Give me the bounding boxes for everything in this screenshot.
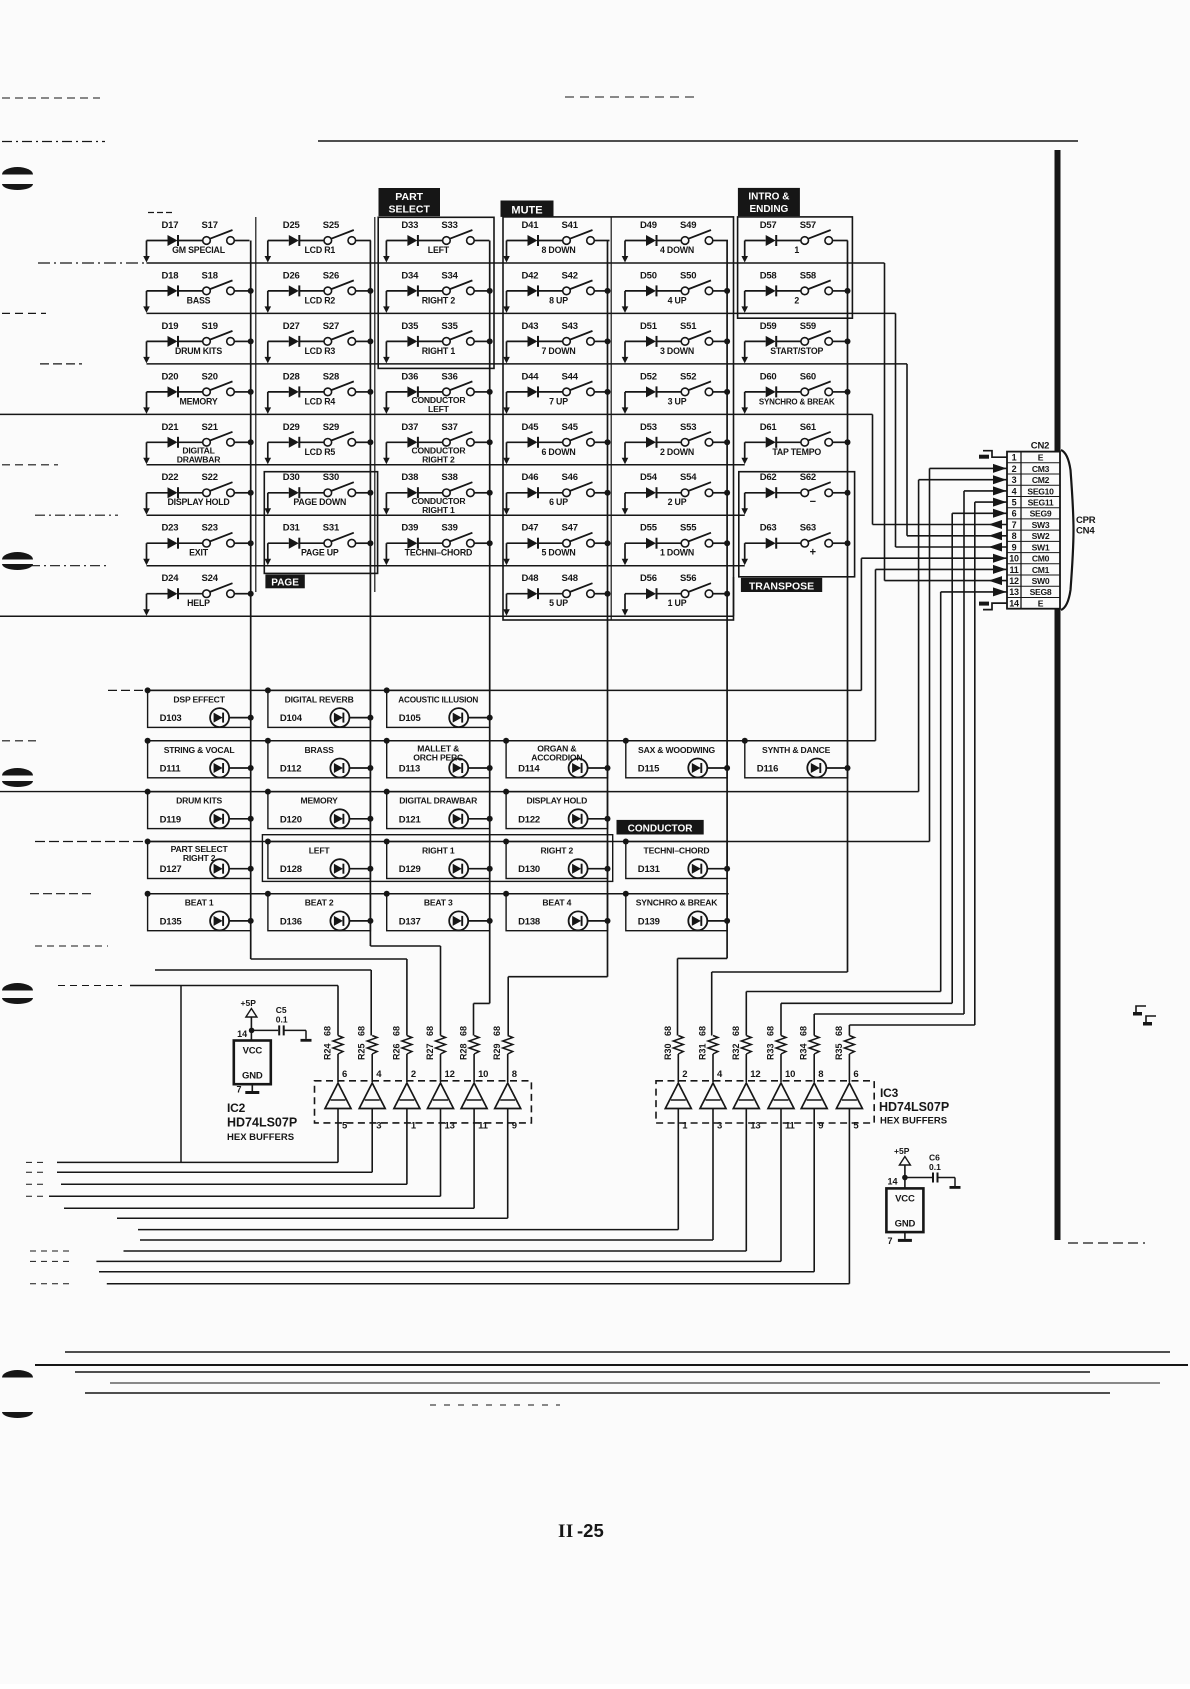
svg-text:R32: R32	[731, 1043, 741, 1060]
svg-text:14: 14	[1009, 599, 1019, 609]
svg-text:4 UP: 4 UP	[668, 295, 687, 305]
svg-text:S57: S57	[800, 220, 816, 231]
svg-text:C5: C5	[276, 1005, 287, 1015]
svg-text:INTRO &: INTRO &	[748, 192, 789, 203]
svg-text:D45: D45	[522, 422, 540, 433]
svg-text:S41: S41	[562, 220, 579, 231]
svg-text:2 UP: 2 UP	[668, 497, 687, 507]
svg-text:D31: D31	[283, 523, 301, 534]
svg-text:68: 68	[425, 1026, 435, 1036]
svg-text:D105: D105	[399, 713, 422, 724]
svg-text:S46: S46	[562, 472, 578, 483]
svg-text:DISPLAY HOLD: DISPLAY HOLD	[526, 796, 587, 806]
svg-text:RIGHT 1: RIGHT 1	[422, 846, 455, 856]
svg-text:3 DOWN: 3 DOWN	[660, 346, 694, 356]
svg-text:13: 13	[1009, 587, 1019, 597]
svg-text:ENDING: ENDING	[749, 204, 788, 215]
svg-text:SEG11: SEG11	[1028, 498, 1054, 508]
svg-text:CPR: CPR	[1076, 515, 1096, 526]
svg-text:PART: PART	[395, 191, 423, 203]
svg-text:RIGHT 2: RIGHT 2	[183, 853, 216, 863]
svg-text:D120: D120	[280, 814, 302, 825]
svg-text:S63: S63	[800, 523, 816, 534]
svg-text:S26: S26	[323, 270, 339, 281]
svg-text:S22: S22	[202, 472, 218, 483]
svg-text:D112: D112	[280, 764, 301, 775]
svg-text:S49: S49	[680, 220, 696, 231]
svg-text:ACOUSTIC ILLUSION: ACOUSTIC ILLUSION	[398, 695, 478, 704]
svg-text:R30: R30	[663, 1043, 673, 1060]
svg-text:68: 68	[459, 1026, 469, 1036]
svg-text:D131: D131	[638, 864, 661, 875]
svg-text:S37: S37	[441, 422, 457, 433]
svg-text:C6: C6	[929, 1153, 940, 1163]
svg-text:SEG9: SEG9	[1030, 509, 1052, 519]
svg-text:D42: D42	[522, 270, 539, 281]
svg-text:SELECT: SELECT	[388, 204, 430, 216]
svg-text:SW0: SW0	[1032, 576, 1050, 586]
svg-text:10: 10	[1009, 554, 1019, 564]
svg-text:3 UP: 3 UP	[668, 396, 687, 406]
svg-text:START/STOP: START/STOP	[770, 346, 823, 356]
svg-text:D20: D20	[162, 371, 179, 382]
svg-text:CONDUCTOR: CONDUCTOR	[628, 824, 694, 835]
svg-text:HEX BUFFERS: HEX BUFFERS	[227, 1132, 294, 1143]
svg-text:BEAT 2: BEAT 2	[305, 898, 334, 908]
svg-text:S36: S36	[441, 371, 457, 382]
svg-text:SYNCHRO & BREAK: SYNCHRO & BREAK	[759, 397, 835, 406]
svg-text:D60: D60	[760, 371, 777, 382]
svg-text:DSP EFFECT: DSP EFFECT	[173, 694, 225, 704]
svg-text:D58: D58	[760, 270, 777, 281]
svg-text:EXIT: EXIT	[189, 548, 209, 558]
svg-text:S23: S23	[202, 523, 218, 534]
svg-text:1: 1	[682, 1121, 688, 1132]
svg-text:R29: R29	[492, 1043, 502, 1060]
svg-text:D50: D50	[640, 270, 657, 281]
svg-text:S43: S43	[562, 321, 578, 332]
svg-text:DRAWBAR: DRAWBAR	[177, 454, 221, 464]
svg-text:CM0: CM0	[1032, 554, 1050, 564]
svg-text:RIGHT 2: RIGHT 2	[422, 454, 455, 464]
svg-text:11: 11	[1010, 565, 1019, 575]
svg-text:1 DOWN: 1 DOWN	[660, 548, 694, 558]
svg-text:D127: D127	[160, 864, 182, 875]
svg-text:12: 12	[1009, 576, 1019, 586]
svg-text:1: 1	[794, 245, 799, 255]
svg-text:8 DOWN: 8 DOWN	[542, 245, 576, 255]
svg-text:D35: D35	[401, 321, 419, 332]
svg-text:MEMORY: MEMORY	[301, 796, 339, 806]
svg-text:ORCH PERC: ORCH PERC	[413, 752, 463, 762]
svg-text:D130: D130	[518, 864, 540, 875]
svg-text:R35: R35	[834, 1043, 844, 1060]
svg-text:LEFT: LEFT	[428, 245, 450, 255]
svg-text:S42: S42	[562, 270, 578, 281]
svg-text:D44: D44	[522, 371, 540, 382]
svg-text:PAGE: PAGE	[271, 578, 299, 589]
svg-text:68: 68	[323, 1026, 333, 1036]
svg-text:11: 11	[785, 1121, 796, 1132]
svg-text:R28: R28	[459, 1043, 469, 1060]
svg-text:TECHNI–CHORD: TECHNI–CHORD	[405, 548, 473, 558]
svg-text:68: 68	[766, 1026, 776, 1036]
svg-text:D28: D28	[283, 371, 300, 382]
svg-text:SYNCHRO & BREAK: SYNCHRO & BREAK	[636, 898, 719, 908]
svg-text:IC3: IC3	[880, 1086, 899, 1100]
svg-text:D23: D23	[162, 523, 179, 534]
svg-text:68: 68	[663, 1026, 673, 1036]
svg-text:VCC: VCC	[243, 1046, 263, 1057]
svg-text:RIGHT 1: RIGHT 1	[422, 505, 455, 515]
svg-text:13: 13	[750, 1121, 760, 1132]
svg-text:S28: S28	[323, 371, 339, 382]
svg-text:D18: D18	[162, 270, 179, 281]
svg-text:5 DOWN: 5 DOWN	[542, 548, 576, 558]
svg-text:HD74LS07P: HD74LS07P	[879, 1100, 949, 1114]
svg-text:BEAT 3: BEAT 3	[424, 898, 453, 908]
svg-text:S60: S60	[800, 371, 816, 382]
svg-text:D37: D37	[401, 422, 418, 433]
svg-text:D36: D36	[401, 371, 418, 382]
svg-text:D103: D103	[160, 713, 182, 724]
svg-text:8: 8	[1012, 531, 1017, 541]
svg-text:D62: D62	[760, 472, 777, 483]
svg-text:D56: D56	[640, 573, 657, 584]
svg-text:D38: D38	[401, 472, 418, 483]
svg-text:8: 8	[818, 1069, 823, 1080]
svg-text:HELP: HELP	[187, 598, 210, 608]
svg-text:IC2: IC2	[227, 1101, 246, 1115]
svg-text:R33: R33	[766, 1043, 776, 1060]
svg-text:PAGE UP: PAGE UP	[301, 548, 339, 558]
svg-text:D119: D119	[160, 814, 181, 825]
svg-text:MUTE: MUTE	[511, 205, 542, 217]
svg-text:0.1: 0.1	[276, 1015, 288, 1025]
svg-text:R26: R26	[391, 1043, 401, 1060]
svg-text:7: 7	[1012, 520, 1017, 530]
svg-text:S48: S48	[562, 573, 578, 584]
svg-text:7: 7	[237, 1085, 242, 1095]
svg-text:D136: D136	[280, 916, 302, 927]
svg-text:68: 68	[834, 1026, 844, 1036]
svg-text:−: −	[810, 496, 816, 508]
svg-text:4: 4	[1012, 486, 1017, 496]
svg-text:S51: S51	[680, 321, 697, 332]
svg-text:RIGHT 2: RIGHT 2	[541, 846, 574, 856]
svg-text:GND: GND	[895, 1218, 916, 1229]
svg-text:D139: D139	[638, 916, 660, 927]
svg-text:6: 6	[342, 1069, 347, 1080]
svg-text:CM3: CM3	[1032, 464, 1050, 474]
svg-text:S53: S53	[680, 422, 696, 433]
svg-text:SEG8: SEG8	[1030, 587, 1052, 597]
svg-text:LCD R1: LCD R1	[305, 245, 336, 255]
svg-text:D57: D57	[760, 220, 777, 231]
svg-text:D41: D41	[522, 220, 540, 231]
svg-text:D47: D47	[522, 523, 539, 534]
svg-text:DRUM KITS: DRUM KITS	[176, 796, 222, 806]
svg-text:VCC: VCC	[895, 1193, 915, 1204]
svg-text:LCD R5: LCD R5	[305, 447, 336, 457]
svg-text:R25: R25	[357, 1043, 367, 1060]
svg-text:2: 2	[682, 1069, 687, 1080]
svg-text:MEMORY: MEMORY	[179, 396, 217, 406]
svg-text:+: +	[810, 547, 816, 559]
svg-text:S61: S61	[800, 422, 817, 433]
svg-text:2 DOWN: 2 DOWN	[660, 447, 694, 457]
svg-text:3: 3	[1012, 475, 1017, 485]
svg-text:S33: S33	[441, 220, 457, 231]
svg-text:LCD R4: LCD R4	[305, 396, 336, 406]
svg-text:D114: D114	[518, 764, 540, 775]
svg-text:SW3: SW3	[1032, 520, 1050, 530]
svg-text:68: 68	[698, 1026, 708, 1036]
svg-text:S58: S58	[800, 270, 816, 281]
svg-text:LCD R3: LCD R3	[305, 346, 336, 356]
svg-text:7 UP: 7 UP	[549, 396, 568, 406]
svg-text:R31: R31	[698, 1043, 708, 1060]
svg-text:68: 68	[492, 1026, 502, 1036]
svg-text:S44: S44	[562, 371, 579, 382]
svg-text:SW1: SW1	[1032, 542, 1050, 552]
svg-text:S47: S47	[562, 523, 578, 534]
svg-text:3: 3	[376, 1121, 381, 1132]
svg-text:1 UP: 1 UP	[668, 598, 687, 608]
svg-text:D54: D54	[640, 472, 658, 483]
svg-text:SAX & WOODWING: SAX & WOODWING	[638, 745, 715, 755]
svg-text:GM SPECIAL: GM SPECIAL	[172, 245, 226, 255]
svg-text:SW2: SW2	[1032, 531, 1050, 541]
svg-text:S55: S55	[680, 523, 697, 534]
svg-text:BEAT 4: BEAT 4	[542, 898, 571, 908]
svg-text:CN4: CN4	[1076, 526, 1095, 537]
svg-text:D19: D19	[162, 321, 179, 332]
svg-text:2: 2	[1012, 464, 1017, 474]
svg-text:3: 3	[717, 1121, 722, 1132]
svg-text:D24: D24	[162, 573, 180, 584]
svg-text:LEFT: LEFT	[309, 846, 331, 856]
svg-text:D116: D116	[757, 764, 778, 775]
svg-text:D61: D61	[760, 422, 778, 433]
svg-text:D33: D33	[401, 220, 418, 231]
svg-text:6 DOWN: 6 DOWN	[542, 447, 576, 457]
svg-text:S54: S54	[680, 472, 697, 483]
svg-text:BASS: BASS	[187, 295, 211, 305]
svg-text:68: 68	[391, 1026, 401, 1036]
svg-text:D22: D22	[162, 472, 179, 483]
svg-text:D46: D46	[522, 472, 539, 483]
svg-text:S18: S18	[202, 270, 218, 281]
svg-text:14: 14	[888, 1177, 898, 1187]
svg-text:D17: D17	[162, 220, 179, 231]
svg-text:2: 2	[411, 1069, 416, 1080]
svg-text:S17: S17	[202, 220, 218, 231]
svg-text:4 DOWN: 4 DOWN	[660, 245, 694, 255]
svg-text:S20: S20	[202, 371, 218, 382]
svg-text:R27: R27	[425, 1043, 435, 1060]
svg-text:DIGITAL DRAWBAR: DIGITAL DRAWBAR	[399, 796, 478, 806]
svg-text:HEX BUFFERS: HEX BUFFERS	[880, 1116, 947, 1127]
svg-text:12: 12	[445, 1069, 455, 1080]
svg-text:D43: D43	[522, 321, 539, 332]
svg-text:RIGHT 2: RIGHT 2	[422, 295, 456, 305]
svg-text:S29: S29	[323, 422, 339, 433]
svg-text:6: 6	[1012, 509, 1017, 519]
svg-text:10: 10	[785, 1069, 795, 1080]
svg-text:7: 7	[888, 1236, 893, 1246]
svg-text:D51: D51	[640, 321, 658, 332]
svg-text:D48: D48	[522, 573, 539, 584]
svg-text:DRUM KITS: DRUM KITS	[175, 346, 222, 356]
svg-text:+5P: +5P	[241, 998, 257, 1008]
svg-text:CN2: CN2	[1031, 441, 1049, 452]
svg-text:D115: D115	[638, 764, 660, 775]
svg-text:5: 5	[1012, 498, 1017, 508]
svg-text:68: 68	[731, 1026, 741, 1036]
svg-text:D49: D49	[640, 220, 657, 231]
svg-text:12: 12	[750, 1069, 760, 1080]
svg-text:ACCORDION: ACCORDION	[531, 752, 582, 762]
svg-text:14: 14	[237, 1029, 247, 1039]
svg-text:2: 2	[794, 295, 799, 305]
svg-text:9: 9	[818, 1121, 823, 1132]
svg-text:D34: D34	[401, 270, 419, 281]
svg-text:D52: D52	[640, 371, 657, 382]
svg-text:6: 6	[853, 1069, 858, 1080]
svg-text:0.1: 0.1	[929, 1162, 941, 1172]
svg-text:TECHNI–CHORD: TECHNI–CHORD	[644, 846, 710, 856]
svg-text:CM2: CM2	[1032, 475, 1050, 485]
svg-text:RIGHT 1: RIGHT 1	[422, 346, 456, 356]
svg-text:D111: D111	[160, 764, 182, 775]
svg-text:S52: S52	[680, 371, 696, 382]
svg-text:S39: S39	[441, 523, 457, 534]
svg-text:68: 68	[357, 1026, 367, 1036]
svg-text:HD74LS07P: HD74LS07P	[227, 1116, 297, 1130]
svg-text:R24: R24	[323, 1043, 333, 1060]
svg-text:E: E	[1038, 453, 1044, 463]
svg-text:S56: S56	[680, 573, 696, 584]
svg-text:S62: S62	[800, 472, 816, 483]
svg-text:BRASS: BRASS	[305, 745, 335, 755]
svg-text:S45: S45	[562, 422, 579, 433]
svg-text:SYNTH & DANCE: SYNTH & DANCE	[762, 745, 831, 755]
svg-text:D121: D121	[399, 814, 422, 825]
svg-text:9: 9	[1012, 542, 1017, 552]
svg-text:68: 68	[799, 1026, 809, 1036]
svg-text:S25: S25	[323, 220, 340, 231]
svg-text:PAGE DOWN: PAGE DOWN	[293, 497, 346, 507]
svg-text:D27: D27	[283, 321, 300, 332]
svg-text:DISPLAY HOLD: DISPLAY HOLD	[167, 497, 229, 507]
svg-text:D137: D137	[399, 916, 421, 927]
svg-text:S34: S34	[441, 270, 458, 281]
svg-text:STRING & VOCAL: STRING & VOCAL	[164, 745, 235, 755]
svg-text:D21: D21	[162, 422, 180, 433]
svg-text:D138: D138	[518, 916, 540, 927]
svg-text:7 DOWN: 7 DOWN	[542, 346, 576, 356]
svg-text:D25: D25	[283, 220, 301, 231]
svg-text:S50: S50	[680, 270, 696, 281]
svg-text:D122: D122	[518, 814, 540, 825]
svg-text:1: 1	[1012, 453, 1017, 463]
svg-text:D113: D113	[399, 764, 420, 775]
svg-text:+5P: +5P	[894, 1146, 910, 1156]
svg-text:LEFT: LEFT	[428, 404, 450, 414]
svg-text:S21: S21	[202, 422, 219, 433]
svg-text:-25: -25	[577, 1520, 604, 1541]
svg-text:TRANSPOSE: TRANSPOSE	[749, 580, 814, 592]
svg-text:D135: D135	[160, 916, 183, 927]
svg-text:S59: S59	[800, 321, 816, 332]
svg-text:E: E	[1038, 599, 1044, 609]
svg-text:S30: S30	[323, 472, 339, 483]
svg-text:SEG10: SEG10	[1027, 486, 1054, 496]
svg-text:TAP TEMPO: TAP TEMPO	[772, 447, 821, 457]
svg-text:D128: D128	[280, 864, 302, 875]
svg-text:D26: D26	[283, 270, 300, 281]
svg-text:LCD R2: LCD R2	[305, 295, 336, 305]
svg-text:D104: D104	[280, 713, 303, 724]
svg-text:DIGITAL REVERB: DIGITAL REVERB	[285, 694, 354, 704]
svg-text:GND: GND	[242, 1071, 263, 1082]
svg-text:CM1: CM1	[1032, 565, 1050, 575]
svg-text:D59: D59	[760, 321, 777, 332]
svg-text:BEAT 1: BEAT 1	[185, 898, 214, 908]
svg-text:S27: S27	[323, 321, 339, 332]
svg-text:D53: D53	[640, 422, 657, 433]
svg-text:S19: S19	[202, 321, 218, 332]
svg-text:S24: S24	[202, 573, 219, 584]
svg-text:D39: D39	[401, 523, 418, 534]
svg-text:5 UP: 5 UP	[549, 598, 568, 608]
svg-text:D29: D29	[283, 422, 300, 433]
svg-text:S38: S38	[441, 472, 457, 483]
svg-text:6 UP: 6 UP	[549, 497, 568, 507]
svg-text:10: 10	[478, 1069, 488, 1080]
svg-text:II: II	[558, 1521, 574, 1542]
svg-text:R34: R34	[799, 1043, 809, 1060]
svg-text:D30: D30	[283, 472, 300, 483]
svg-text:D63: D63	[760, 523, 777, 534]
svg-text:D55: D55	[640, 523, 658, 534]
svg-text:S31: S31	[323, 523, 340, 534]
svg-text:D129: D129	[399, 864, 421, 875]
svg-text:8: 8	[512, 1069, 517, 1080]
svg-text:8 UP: 8 UP	[549, 295, 568, 305]
svg-text:S35: S35	[441, 321, 458, 332]
